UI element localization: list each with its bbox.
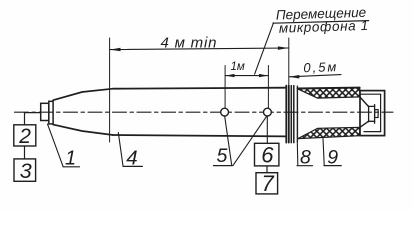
svg-text:5: 5 — [217, 145, 228, 167]
svg-text:1м: 1м — [231, 61, 245, 73]
box 3 (generator) — [14, 159, 36, 181]
duct 4 bottom wall — [113, 135, 286, 136]
underline label 5 — [214, 165, 233, 167]
dimension line 4 m min — [110, 48, 289, 50]
box 6 — [255, 143, 279, 166]
leader label 5 to right circle — [233, 117, 266, 166]
box 7 — [256, 173, 278, 194]
leader label 8 — [296, 142, 299, 165]
svg-text:2: 2 — [18, 125, 31, 148]
muffler casing top wall — [297, 86, 359, 89]
extension line right of 4m dimension — [288, 38, 290, 87]
extension line mic pos 1 — [224, 66, 226, 109]
horn cone 1 top edge — [53, 89, 113, 101]
leader label 9 — [323, 138, 324, 165]
duct 4 top wall — [113, 88, 286, 89]
underline label 1 — [63, 166, 80, 168]
svg-text:0,5м: 0,5м — [303, 59, 338, 75]
wire circle2 to box 6 — [266, 116, 268, 143]
svg-text:4 м min: 4 м min — [161, 34, 218, 51]
extension line mic pos 2 — [267, 66, 269, 109]
leader label 5 to left circle — [225, 116, 232, 165]
wire from driver to box 2 — [25, 113, 41, 125]
screen 8 (flange / membrane lines) — [285, 86, 287, 143]
wire box2-box3 — [24, 146, 26, 159]
microphone position 6 (circle, right) — [264, 108, 272, 116]
underline of heading text — [273, 21, 369, 24]
svg-text:8: 8 — [300, 146, 311, 168]
extension line left of 4m dimension — [109, 38, 111, 142]
leader label 4 — [118, 133, 123, 166]
box 2 (amplifier) — [14, 125, 36, 146]
svg-text:4: 4 — [126, 146, 137, 169]
dimension line 1m — [225, 75, 268, 77]
svg-text:7: 7 — [262, 171, 275, 196]
svg-text:3: 3 — [20, 159, 32, 183]
absorber lining 9 top wedge (hatched) — [298, 88, 360, 98]
centerline (axis, dash-dot) — [15, 111, 394, 113]
step flange — [49, 101, 53, 124]
throat box (driver unit) — [41, 103, 49, 120]
svg-text:9: 9 — [327, 146, 338, 168]
absorber lining 9 bottom wedge (hatched) — [298, 127, 360, 138]
underline label 4 — [123, 165, 142, 167]
underline label 8 — [297, 165, 313, 167]
horn cone 1 bottom edge — [53, 125, 113, 135]
dimension line 0,5m — [289, 75, 341, 77]
end cap inner frame — [360, 93, 381, 95]
microphone position 5 (circle, left) — [221, 108, 229, 116]
leader from text to 1m span — [255, 23, 274, 74]
underline label 9 — [324, 165, 341, 167]
end cap outer frame — [360, 91, 385, 136]
converging cone to microphone 2 — [360, 97, 369, 107]
svg-text:микрофона 1: микрофона 1 — [279, 18, 369, 36]
wire box6-box7 — [266, 166, 268, 173]
microphone plug body — [368, 106, 370, 122]
svg-text:6: 6 — [261, 143, 274, 168]
svg-text:1: 1 — [65, 147, 76, 169]
leader label 1 — [48, 124, 64, 166]
